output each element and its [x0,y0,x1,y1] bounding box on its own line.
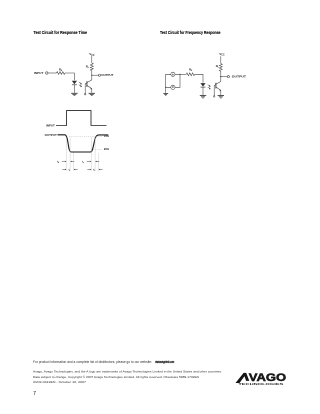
ground (sources) [163,93,168,95]
wire RS to LED node [65,73,74,80]
svg-text:INPUT: INPUT [46,123,55,127]
label RL [86,65,90,70]
node OUTPUT terminal [227,76,229,78]
AC source arrow mark [172,74,174,76]
DC source arrow mark [172,87,174,89]
wire emitter to ground [91,89,93,93]
node OUTPUT terminal [98,74,100,76]
10% dashed level line [69,136,102,138]
svg-text:7: 7 [33,391,36,397]
base lead open terminal [214,85,216,96]
svg-text:OUTPUT: OUTPUT [45,133,57,137]
phototransistor Q1 [86,81,88,87]
footer line 1 [33,360,174,364]
svg-text:s: s [83,162,84,164]
label INPUT [34,71,44,75]
photodiode light arrows [208,85,211,90]
svg-text:AV02-0412EN - October 10, 2007: AV02-0412EN - October 10, 2007 [33,380,86,384]
stylized A [236,373,250,383]
Avago logo [236,372,287,386]
svg-text:10%: 10% [104,134,110,138]
base lead open terminal [85,83,87,94]
wire RS to LED node [195,74,203,82]
90% dashed level line [93,148,102,150]
wire left rail [166,74,171,87]
source VDC (bias) [171,85,175,89]
label VCC [219,52,225,57]
label 10% [104,134,110,138]
wire node to OUTPUT [221,76,228,78]
ts measure [82,160,99,164]
svg-text:VAGO: VAGO [249,372,287,384]
wire LED cathode to ground [73,85,75,93]
resistor RL (vertical) [90,63,93,71]
node junction dot [91,75,92,76]
wire node to OUTPUT [92,74,99,76]
svg-text:Data subject to change. Copyri: Data subject to change. Copyright © 2007… [33,375,199,379]
svg-text:L: L [218,67,220,69]
wire right rail [175,74,180,87]
wire collector to node [216,71,221,84]
label OUTPUT [232,75,246,79]
output response waveform [58,135,109,152]
label OUTPUT (waveform) [45,133,57,137]
svg-text:Avago, Avago Technologies, and: Avago, Avago Technologies, and the A log… [33,369,222,373]
photodiode light arrows [79,82,82,87]
label 90% [104,147,110,151]
td measure [57,160,74,164]
svg-text:CC: CC [91,55,95,57]
source VS (AC) [171,72,175,76]
wire input to RS [48,72,57,74]
ground (emitter) [218,96,224,98]
LED D2 [200,83,205,87]
label RS [59,67,63,72]
LED D1 [72,81,77,85]
label INPUT (waveform) [46,123,55,127]
ground (emitter) [89,93,95,95]
footer line 2 [33,369,222,373]
heading left [34,30,88,35]
timing marker vlines [66,137,98,171]
emitter arrow head [90,88,92,90]
node junction dots [165,87,166,88]
resistor RL (vertical) [219,64,222,72]
wire emitter to ground [220,90,222,95]
phototransistor Q2 [215,83,217,89]
wire RL to VCC [91,56,93,63]
wire RL to VCC [220,56,222,63]
page number 7 [33,391,36,397]
label RL [216,64,220,69]
svg-text:www.avagotech.com: www.avagotech.com [155,360,175,364]
svg-text:CC: CC [221,55,225,57]
wire LED cathode to ground [202,87,204,95]
ground (LED) [200,96,206,98]
footer line 3 [33,375,199,379]
svg-text:Test Circuit for Frequency Res: Test Circuit for Frequency Response [160,30,221,35]
label RS [189,67,193,72]
svg-text:L: L [88,67,90,69]
label VCC [89,52,95,57]
emitter arrow head [219,89,221,91]
svg-text:OUTPUT: OUTPUT [232,75,246,79]
svg-text:S: S [191,70,193,72]
tf measure [87,169,102,173]
svg-text:d: d [58,162,60,164]
wire to RS [180,73,186,75]
wire ground stub [165,87,167,93]
label OUTPUT [101,73,113,77]
wire collector to node [87,71,92,83]
svg-text:TECHNOLOGIES: TECHNOLOGIES [238,383,284,386]
svg-text:90%: 90% [104,147,110,151]
input pulse waveform [56,111,107,126]
resistor RS [57,72,66,75]
ground (LED) [71,93,77,95]
node INPUT terminal [46,72,48,74]
footer line 4 [33,380,86,384]
svg-text:INPUT: INPUT [34,71,44,75]
svg-text:OUTPUT: OUTPUT [101,73,113,77]
heading right [160,30,221,35]
svg-text:Test Circuit for Response Time: Test Circuit for Response Time [34,30,88,35]
resistor RS [186,73,195,76]
svg-text:For product information and a: For product information and a complete l… [33,360,152,364]
tr measure [62,169,77,173]
